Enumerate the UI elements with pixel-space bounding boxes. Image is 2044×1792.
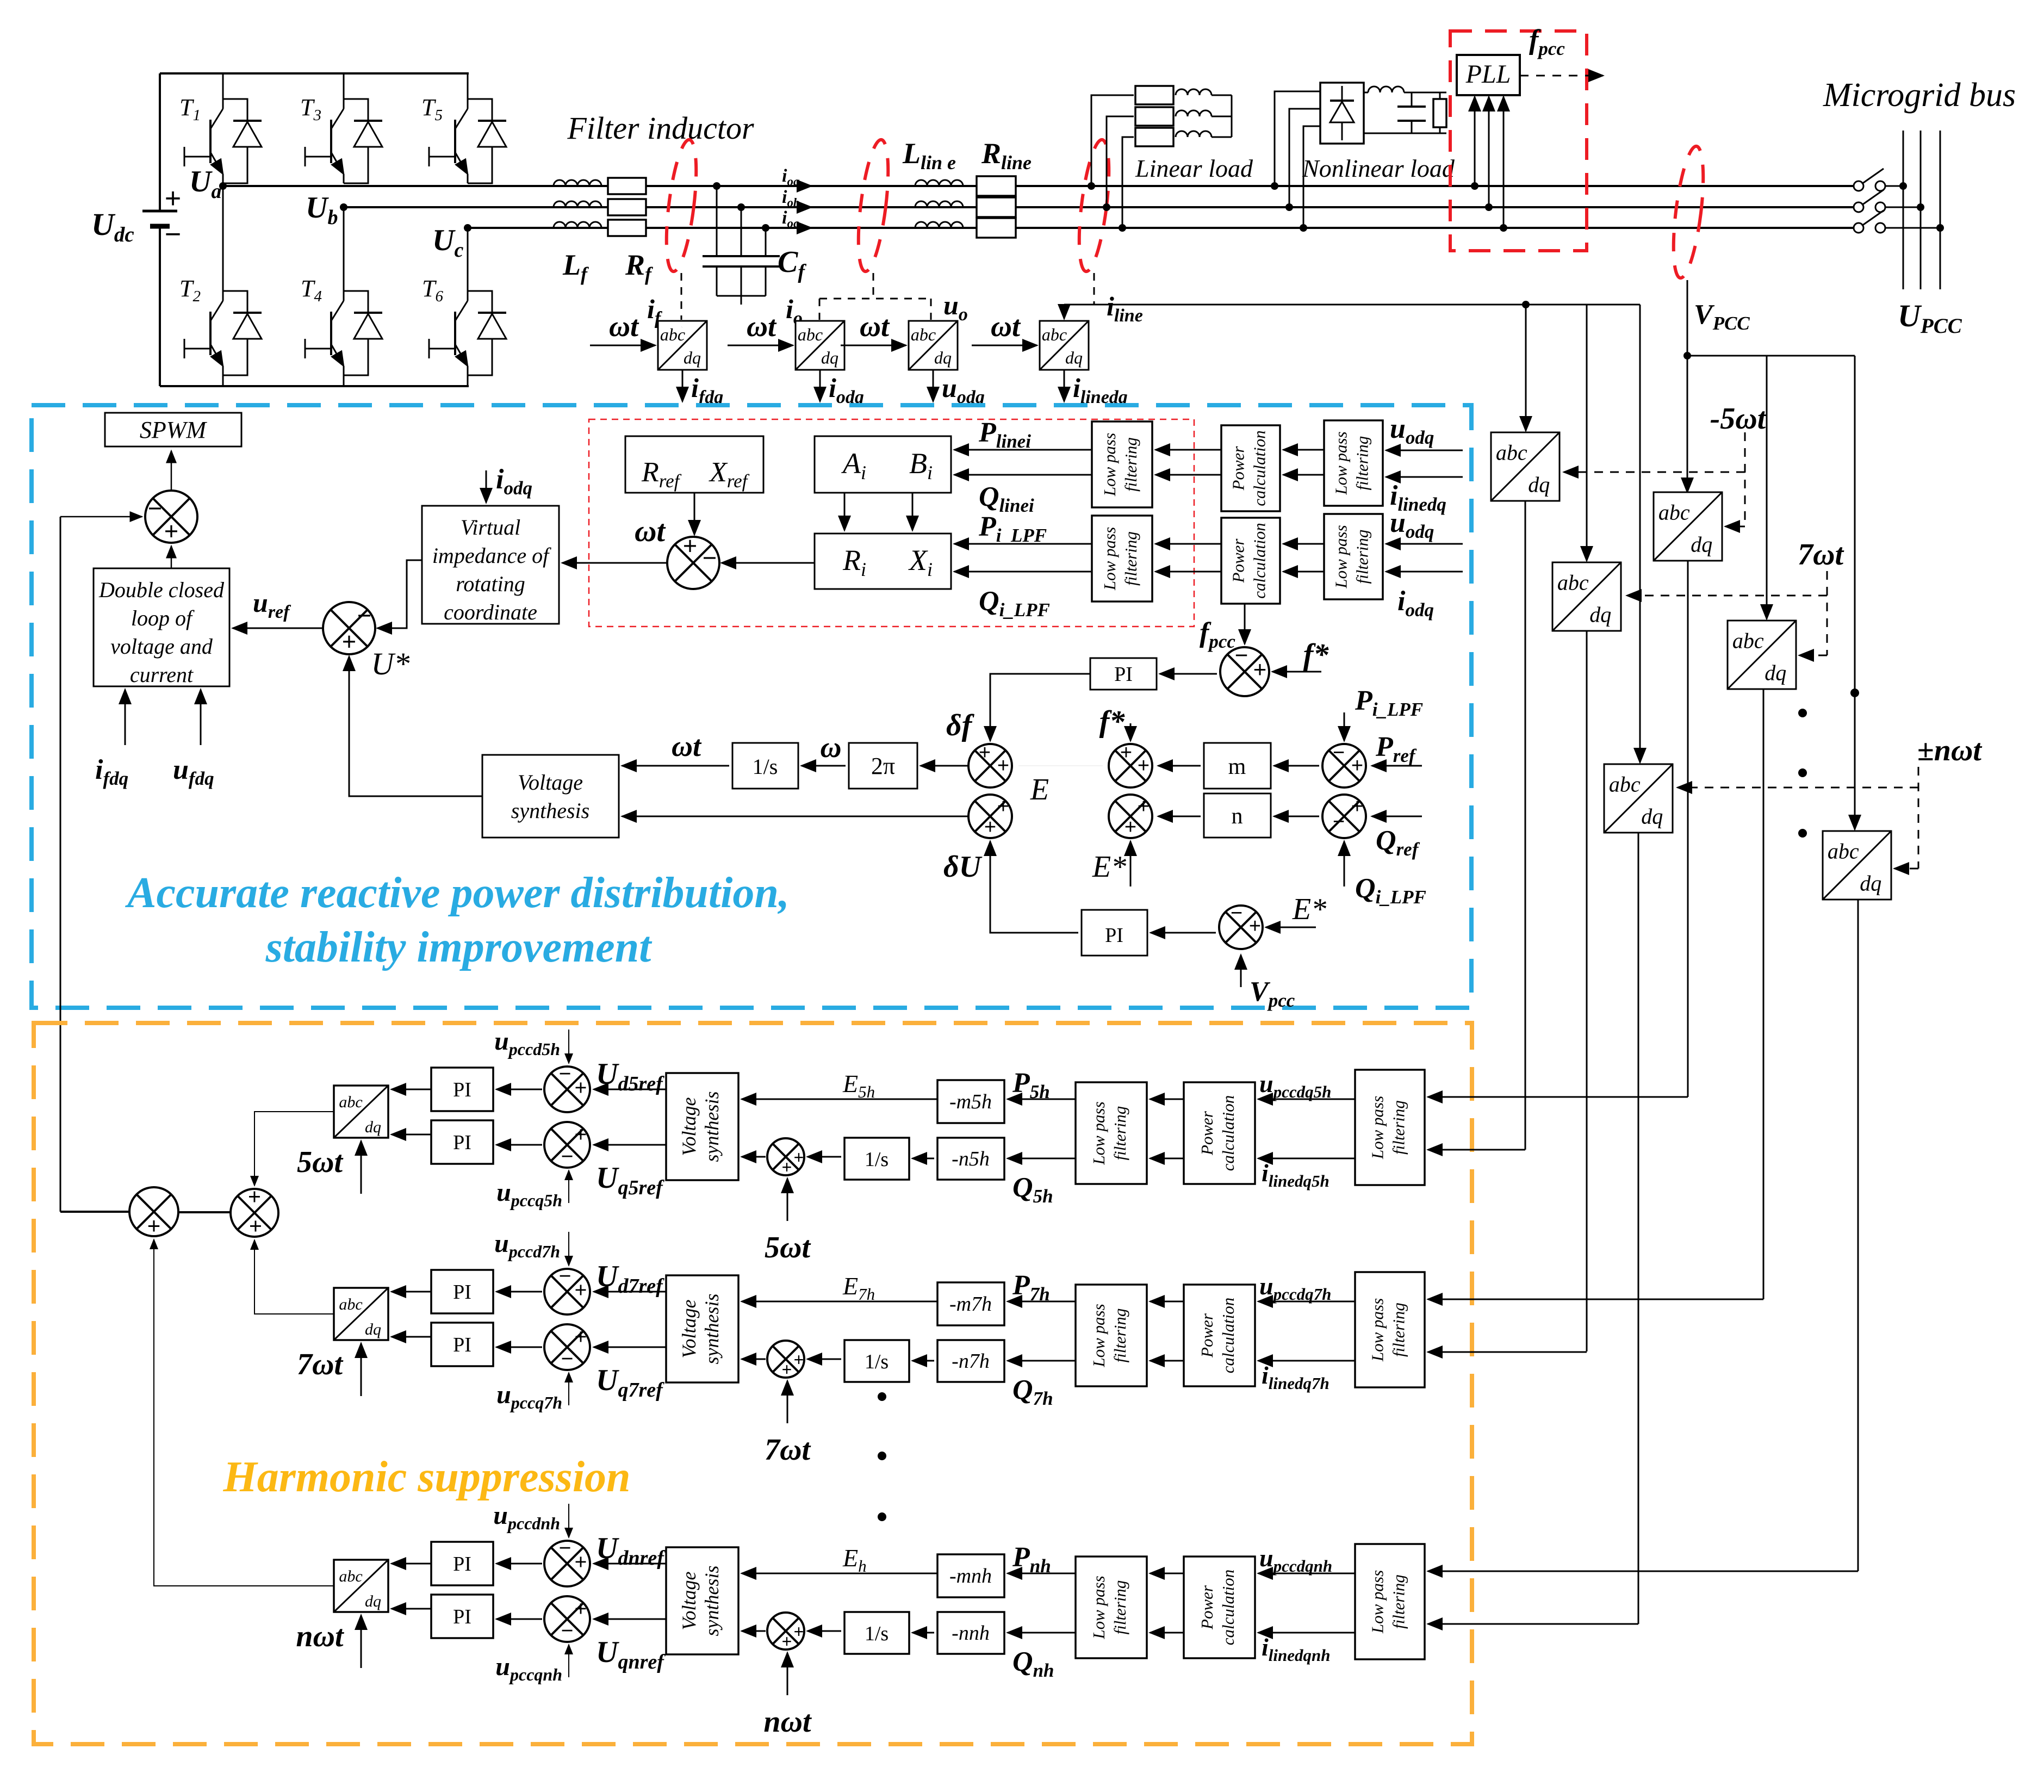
svg-text:filtering: filtering xyxy=(1110,1580,1129,1635)
svg-text:filtering: filtering xyxy=(1121,437,1140,492)
svg-text:Low pass: Low pass xyxy=(1100,527,1119,591)
svg-text:synthesis: synthesis xyxy=(701,1092,723,1162)
svg-text:+: + xyxy=(1351,754,1363,777)
svg-text:synthesis: synthesis xyxy=(701,1566,723,1636)
svg-text:+: + xyxy=(683,532,697,560)
svg-text:Power: Power xyxy=(1197,1313,1216,1358)
svg-text:δf: δf xyxy=(946,709,975,742)
svg-text:+: + xyxy=(1120,741,1132,764)
svg-text:Low pass: Low pass xyxy=(1089,1101,1108,1165)
svg-text:abc: abc xyxy=(339,1567,362,1585)
svg-text:Voltage: Voltage xyxy=(678,1299,700,1358)
svg-text:stability improvement: stability improvement xyxy=(265,923,653,971)
svg-text:E: E xyxy=(1030,773,1049,807)
svg-text:abc: abc xyxy=(1042,325,1067,344)
svg-text:synthesis: synthesis xyxy=(511,798,589,823)
svg-text:abc: abc xyxy=(798,325,823,344)
svg-text:PLL: PLL xyxy=(1465,60,1511,89)
svg-text:Low pass: Low pass xyxy=(1332,525,1351,588)
svg-text:Power: Power xyxy=(1197,1111,1216,1156)
svg-text:dq: dq xyxy=(1691,532,1712,557)
svg-text:5ωt: 5ωt xyxy=(297,1145,343,1179)
svg-text:Low pass: Low pass xyxy=(1100,433,1119,497)
svg-text:n: n xyxy=(1232,804,1243,829)
svg-text:dq: dq xyxy=(1528,473,1550,497)
svg-text:dq: dq xyxy=(1860,871,1881,896)
svg-text:nωt: nωt xyxy=(296,1620,344,1653)
svg-text:−: − xyxy=(357,602,371,629)
svg-text:+: + xyxy=(794,1350,804,1369)
svg-text:dq: dq xyxy=(934,348,952,367)
svg-text:+: + xyxy=(164,517,178,545)
svg-text:-n5h: -n5h xyxy=(952,1148,990,1170)
svg-text:Voltage: Voltage xyxy=(678,1571,700,1630)
svg-text:-m5h: -m5h xyxy=(949,1090,992,1113)
svg-text:dq: dq xyxy=(365,1592,381,1610)
svg-text:1/s: 1/s xyxy=(865,1148,889,1171)
svg-text:SPWM: SPWM xyxy=(140,417,208,443)
svg-text:calculation: calculation xyxy=(1250,523,1269,598)
svg-text:abc: abc xyxy=(1609,772,1641,796)
svg-text:−: − xyxy=(1231,902,1242,925)
svg-text:+: + xyxy=(794,1148,804,1167)
svg-text:filtering: filtering xyxy=(1121,531,1140,586)
svg-text:+: + xyxy=(1249,915,1261,938)
svg-text:-mnh: -mnh xyxy=(949,1565,992,1588)
svg-text:+: + xyxy=(342,628,356,655)
svg-text:+: + xyxy=(575,1597,587,1621)
svg-text:+: + xyxy=(165,183,181,214)
svg-text:+: + xyxy=(1138,795,1150,818)
svg-text:-n7h: -n7h xyxy=(952,1350,990,1373)
svg-text:+: + xyxy=(575,1325,587,1349)
svg-text:Virtual: Virtual xyxy=(461,515,520,540)
svg-text:Voltage: Voltage xyxy=(518,770,583,795)
svg-text:+: + xyxy=(248,1184,261,1209)
svg-text:dq: dq xyxy=(684,348,701,367)
svg-text:+: + xyxy=(575,1551,587,1574)
svg-text:m: m xyxy=(1228,754,1246,779)
svg-text:+: + xyxy=(147,1213,161,1238)
svg-text:7ωt: 7ωt xyxy=(765,1433,811,1467)
svg-text:−: − xyxy=(165,219,181,250)
svg-text:+: + xyxy=(575,1279,587,1302)
svg-text:-m7h: -m7h xyxy=(949,1293,992,1316)
svg-text:coordinate: coordinate xyxy=(444,600,537,624)
svg-text:PI: PI xyxy=(453,1078,471,1101)
svg-text:Filter inductor: Filter inductor xyxy=(567,110,754,146)
svg-text:dq: dq xyxy=(1641,804,1663,829)
svg-text:filtering: filtering xyxy=(1389,1303,1408,1357)
svg-text:Linear load: Linear load xyxy=(1135,154,1253,182)
svg-text:PI: PI xyxy=(453,1605,471,1628)
svg-text:Power: Power xyxy=(1197,1585,1216,1630)
svg-text:+: + xyxy=(249,1213,262,1238)
svg-text:PI: PI xyxy=(453,1281,471,1304)
svg-text:f*: f* xyxy=(1303,638,1329,672)
svg-text:dq: dq xyxy=(1765,661,1786,685)
svg-text:Low pass: Low pass xyxy=(1089,1576,1108,1639)
svg-text:E*: E* xyxy=(1092,850,1126,884)
svg-text:+: + xyxy=(782,1360,792,1379)
svg-text:+: + xyxy=(984,816,996,839)
svg-text:Voltage: Voltage xyxy=(678,1097,700,1156)
svg-text:Power: Power xyxy=(1229,538,1248,584)
svg-text:−: − xyxy=(559,1264,571,1288)
svg-text:2π: 2π xyxy=(871,753,895,779)
svg-text:−: − xyxy=(559,1062,571,1086)
svg-text:+: + xyxy=(1253,656,1267,682)
svg-text:−: − xyxy=(1333,741,1345,764)
svg-text:calculation: calculation xyxy=(1219,1095,1238,1171)
svg-text:PI: PI xyxy=(453,1334,471,1356)
svg-text:1/s: 1/s xyxy=(865,1350,889,1373)
svg-text:filtering: filtering xyxy=(1389,1100,1408,1155)
svg-text:nωt: nωt xyxy=(763,1705,812,1739)
svg-text:abc: abc xyxy=(1557,570,1589,594)
svg-text:loop of: loop of xyxy=(131,606,195,630)
svg-text:Harmonic suppression: Harmonic suppression xyxy=(222,1453,630,1501)
svg-text:+: + xyxy=(979,741,991,764)
svg-text:ωt: ωt xyxy=(635,514,666,548)
svg-text:+: + xyxy=(575,1123,587,1146)
svg-text:filtering: filtering xyxy=(1110,1106,1129,1161)
svg-text:±nωt: ±nωt xyxy=(1917,734,1982,767)
svg-text:ωt: ωt xyxy=(860,310,890,343)
svg-text:Low pass: Low pass xyxy=(1368,1298,1387,1362)
svg-text:impedance of: impedance of xyxy=(432,543,551,568)
svg-text:−: − xyxy=(559,1536,571,1560)
svg-text:PI: PI xyxy=(453,1553,471,1576)
svg-text:−: − xyxy=(703,544,717,572)
svg-text:+: + xyxy=(1138,754,1150,777)
svg-text:U*: U* xyxy=(371,646,410,681)
svg-text:filtering: filtering xyxy=(1110,1309,1129,1363)
svg-text:1/s: 1/s xyxy=(865,1622,889,1645)
svg-text:+: + xyxy=(794,1622,804,1641)
svg-text:dq: dq xyxy=(1589,603,1611,627)
svg-text:abc: abc xyxy=(660,325,685,344)
svg-text:+: + xyxy=(997,795,1009,818)
svg-text:voltage and: voltage and xyxy=(110,634,213,659)
svg-text:7ωt: 7ωt xyxy=(1798,538,1844,572)
svg-text:Power: Power xyxy=(1229,446,1248,491)
svg-text:δU: δU xyxy=(943,850,983,884)
svg-text:Low pass: Low pass xyxy=(1368,1096,1387,1159)
svg-text:calculation: calculation xyxy=(1219,1570,1238,1645)
svg-text:−: − xyxy=(148,494,162,522)
svg-text:filtering: filtering xyxy=(1389,1574,1408,1629)
svg-text:abc: abc xyxy=(339,1295,362,1313)
svg-text:−: − xyxy=(1333,810,1345,833)
svg-text:+: + xyxy=(1351,795,1363,818)
svg-text:Nonlinear load: Nonlinear load xyxy=(1302,154,1455,182)
svg-text:current: current xyxy=(130,662,194,687)
svg-text:PI: PI xyxy=(1114,663,1133,686)
svg-text:−: − xyxy=(561,1145,574,1168)
svg-text:filtering: filtering xyxy=(1352,530,1371,584)
svg-text:dq: dq xyxy=(1065,348,1083,367)
svg-text:calculation: calculation xyxy=(1250,430,1269,506)
svg-text:abc: abc xyxy=(1658,500,1690,524)
svg-text:filtering: filtering xyxy=(1352,436,1371,491)
svg-text:ωt: ωt xyxy=(747,310,777,343)
svg-text:Low pass: Low pass xyxy=(1368,1570,1387,1634)
svg-text:Accurate reactive power distri: Accurate reactive power distribution, xyxy=(125,869,790,917)
svg-text:ωt: ωt xyxy=(609,310,639,343)
svg-text:1/s: 1/s xyxy=(753,754,778,779)
svg-text:dq: dq xyxy=(365,1320,381,1338)
svg-text:−: − xyxy=(561,1619,574,1642)
svg-text:+: + xyxy=(782,1632,792,1651)
svg-text:PI: PI xyxy=(453,1131,471,1154)
svg-text:Microgrid bus: Microgrid bus xyxy=(1823,77,2016,114)
svg-text:+: + xyxy=(782,1157,792,1177)
svg-text:ωt: ωt xyxy=(991,310,1021,343)
svg-text:−: − xyxy=(1235,642,1248,668)
svg-text:PI: PI xyxy=(1105,924,1123,947)
svg-text:Low pass: Low pass xyxy=(1089,1304,1108,1367)
svg-text:abc: abc xyxy=(1828,839,1859,863)
svg-text:ω: ω xyxy=(820,731,841,764)
svg-text:+: + xyxy=(575,1076,587,1100)
svg-text:7ωt: 7ωt xyxy=(297,1348,343,1381)
svg-text:synthesis: synthesis xyxy=(701,1294,723,1365)
svg-text:f*: f* xyxy=(1099,705,1126,739)
svg-text:−: − xyxy=(561,1347,574,1371)
svg-text:calculation: calculation xyxy=(1219,1298,1238,1373)
svg-text:E*: E* xyxy=(1292,892,1326,926)
svg-text:dq: dq xyxy=(821,348,838,367)
svg-text:dq: dq xyxy=(365,1118,381,1136)
svg-text:abc: abc xyxy=(339,1093,362,1111)
svg-text:Double closed: Double closed xyxy=(98,578,225,602)
svg-text:abc: abc xyxy=(1496,440,1527,464)
svg-text:abc: abc xyxy=(1732,628,1764,653)
svg-text:-5ωt: -5ωt xyxy=(1710,402,1767,436)
svg-text:5ωt: 5ωt xyxy=(765,1231,811,1264)
svg-text:rotating: rotating xyxy=(456,572,525,596)
svg-text:+: + xyxy=(1124,816,1136,839)
svg-text:Low pass: Low pass xyxy=(1332,431,1351,495)
svg-text:ωt: ωt xyxy=(672,730,702,762)
svg-text:+: + xyxy=(997,754,1009,777)
svg-text:-nnh: -nnh xyxy=(952,1622,990,1645)
svg-text:abc: abc xyxy=(911,325,936,344)
